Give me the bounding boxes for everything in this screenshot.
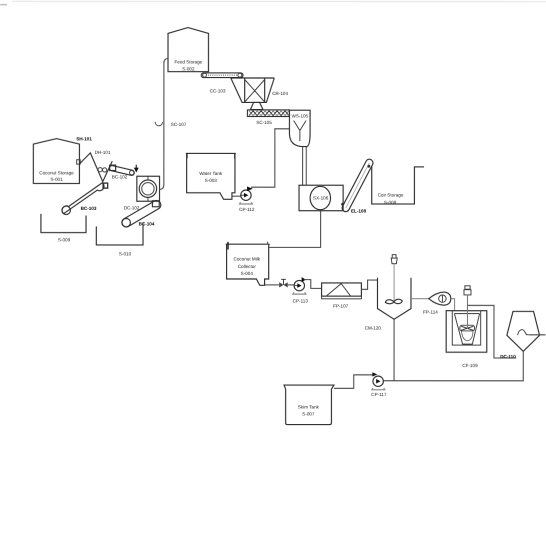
svg-text:SC-105: SC-105: [256, 120, 272, 125]
water pipe CP-112 to WS-105: [251, 129, 289, 187]
pipe valve to pump CP-113: [288, 284, 295, 286]
svg-text:SH-101: SH-101: [76, 136, 92, 141]
svg-text:S-009: S-009: [58, 237, 71, 242]
svg-text:BC-104: BC-104: [139, 221, 155, 226]
svg-text:Collector: Collector: [238, 264, 257, 269]
svg-text:S-007: S-007: [302, 412, 315, 417]
svg-text:CP-112: CP-112: [239, 207, 255, 212]
pipe CM-120 to FP-114: [411, 298, 429, 300]
washer WS-105: [289, 110, 310, 146]
belt conveyor BC-103: [62, 183, 108, 215]
coconut storage S-001: [33, 139, 80, 184]
svg-text:CF-109: CF-109: [462, 363, 478, 368]
bottoms pipe CM-120: [393, 319, 395, 380]
pipe SX-106 to collector: [269, 211, 321, 248]
svg-text:Water Tank: Water Tank: [199, 171, 223, 176]
centrifuge motor CF-109: [464, 286, 471, 329]
pump CP-113: [293, 277, 309, 303]
pump CP-112: [239, 186, 255, 212]
svg-text:Coir Storage: Coir Storage: [378, 193, 404, 198]
centrifuge CF-109: [446, 311, 487, 368]
svg-text:BC-103: BC-103: [81, 206, 97, 211]
svg-text:Skim Tank: Skim Tank: [298, 405, 320, 410]
fat pump FP-114: [423, 292, 451, 314]
svg-text:CR-104: CR-104: [272, 91, 288, 96]
coconut milk collector S-004: [226, 242, 270, 286]
coir storage S-008: [372, 166, 424, 205]
water tank S-003: [186, 153, 236, 199]
svg-text:S-010: S-010: [119, 251, 132, 256]
pump CP-117: [371, 372, 387, 397]
belt conveyor BC-102: [110, 165, 135, 179]
pipe skim tank to pump CP-117: [334, 375, 374, 389]
svg-text:Coconut Milk: Coconut Milk: [234, 256, 261, 261]
pipe FP-107 to CM-120: [361, 280, 377, 289]
svg-text:DC-102: DC-102: [124, 205, 140, 210]
svg-text:S-008: S-008: [384, 200, 397, 205]
pipe collector to valve: [265, 284, 279, 286]
hand valve: [279, 279, 288, 287]
bucket elevator EL-108: [341, 159, 373, 213]
funnel marker SC-107: [155, 122, 187, 127]
svg-text:EL-108: EL-108: [351, 209, 367, 214]
belt conveyor BC-104: [122, 201, 161, 227]
outlet pipe DC-110 right: [529, 334, 545, 336]
overflow pipe CF-109: [467, 305, 516, 358]
mixing tank CM-120: [365, 278, 411, 331]
sheller SH-101: [76, 136, 112, 188]
svg-text:S-002: S-002: [182, 66, 195, 71]
svg-text:CM-120: CM-120: [365, 326, 382, 331]
pipe pump CP-113 to FP-107: [304, 280, 322, 289]
svg-text:SC-107: SC-107: [171, 122, 187, 127]
bin S-009: [41, 214, 86, 242]
screw press SX-106: [299, 185, 343, 211]
svg-text:SX-106: SX-106: [313, 196, 329, 201]
grinder DC-102: [124, 176, 160, 210]
svg-text:Coconut Storage: Coconut Storage: [39, 170, 74, 175]
chain conveyor CC-103: [201, 73, 243, 94]
svg-text:CC-103: CC-103: [210, 88, 226, 93]
filter press FP-107: [322, 283, 362, 309]
skim tank S-007: [284, 385, 334, 425]
crusher CR-104: [231, 78, 289, 102]
feed storage S-002: [168, 28, 209, 72]
svg-text:CP-113: CP-113: [293, 299, 309, 304]
agitator motor CM-120: [385, 255, 402, 304]
svg-text:DH-101: DH-101: [95, 150, 111, 155]
svg-text:WS-105: WS-105: [292, 114, 309, 119]
pipe FP-114 to CF-109: [451, 299, 455, 311]
crusher discharge foot: [250, 102, 263, 109]
svg-text:S-003: S-003: [205, 178, 218, 183]
svg-text:S-001: S-001: [50, 177, 63, 182]
svg-text:Feed Storage: Feed Storage: [174, 59, 202, 64]
bin S-010: [96, 223, 143, 256]
inlet arrow into DC-102: [134, 165, 139, 173]
svg-text:DC-110: DC-110: [500, 354, 516, 359]
faint top edge line: [12, 0, 546, 2]
svg-text:S-004: S-004: [241, 271, 254, 276]
svg-text:FP-114: FP-114: [423, 310, 438, 315]
chute WS-105 to SX-106: [303, 147, 307, 185]
recycle pipe S-002 to DC-102: [159, 58, 168, 189]
svg-text:FP-107: FP-107: [333, 304, 349, 309]
svg-text:CP-117: CP-117: [371, 392, 387, 397]
svg-text:BC-102: BC-102: [112, 174, 128, 179]
bottoms pipe DC-110: [383, 351, 523, 381]
cyclone DC-110: [507, 311, 540, 351]
vibrating screen SC-105: [247, 110, 289, 125]
pipe tank to pump CP-112: [232, 195, 241, 197]
